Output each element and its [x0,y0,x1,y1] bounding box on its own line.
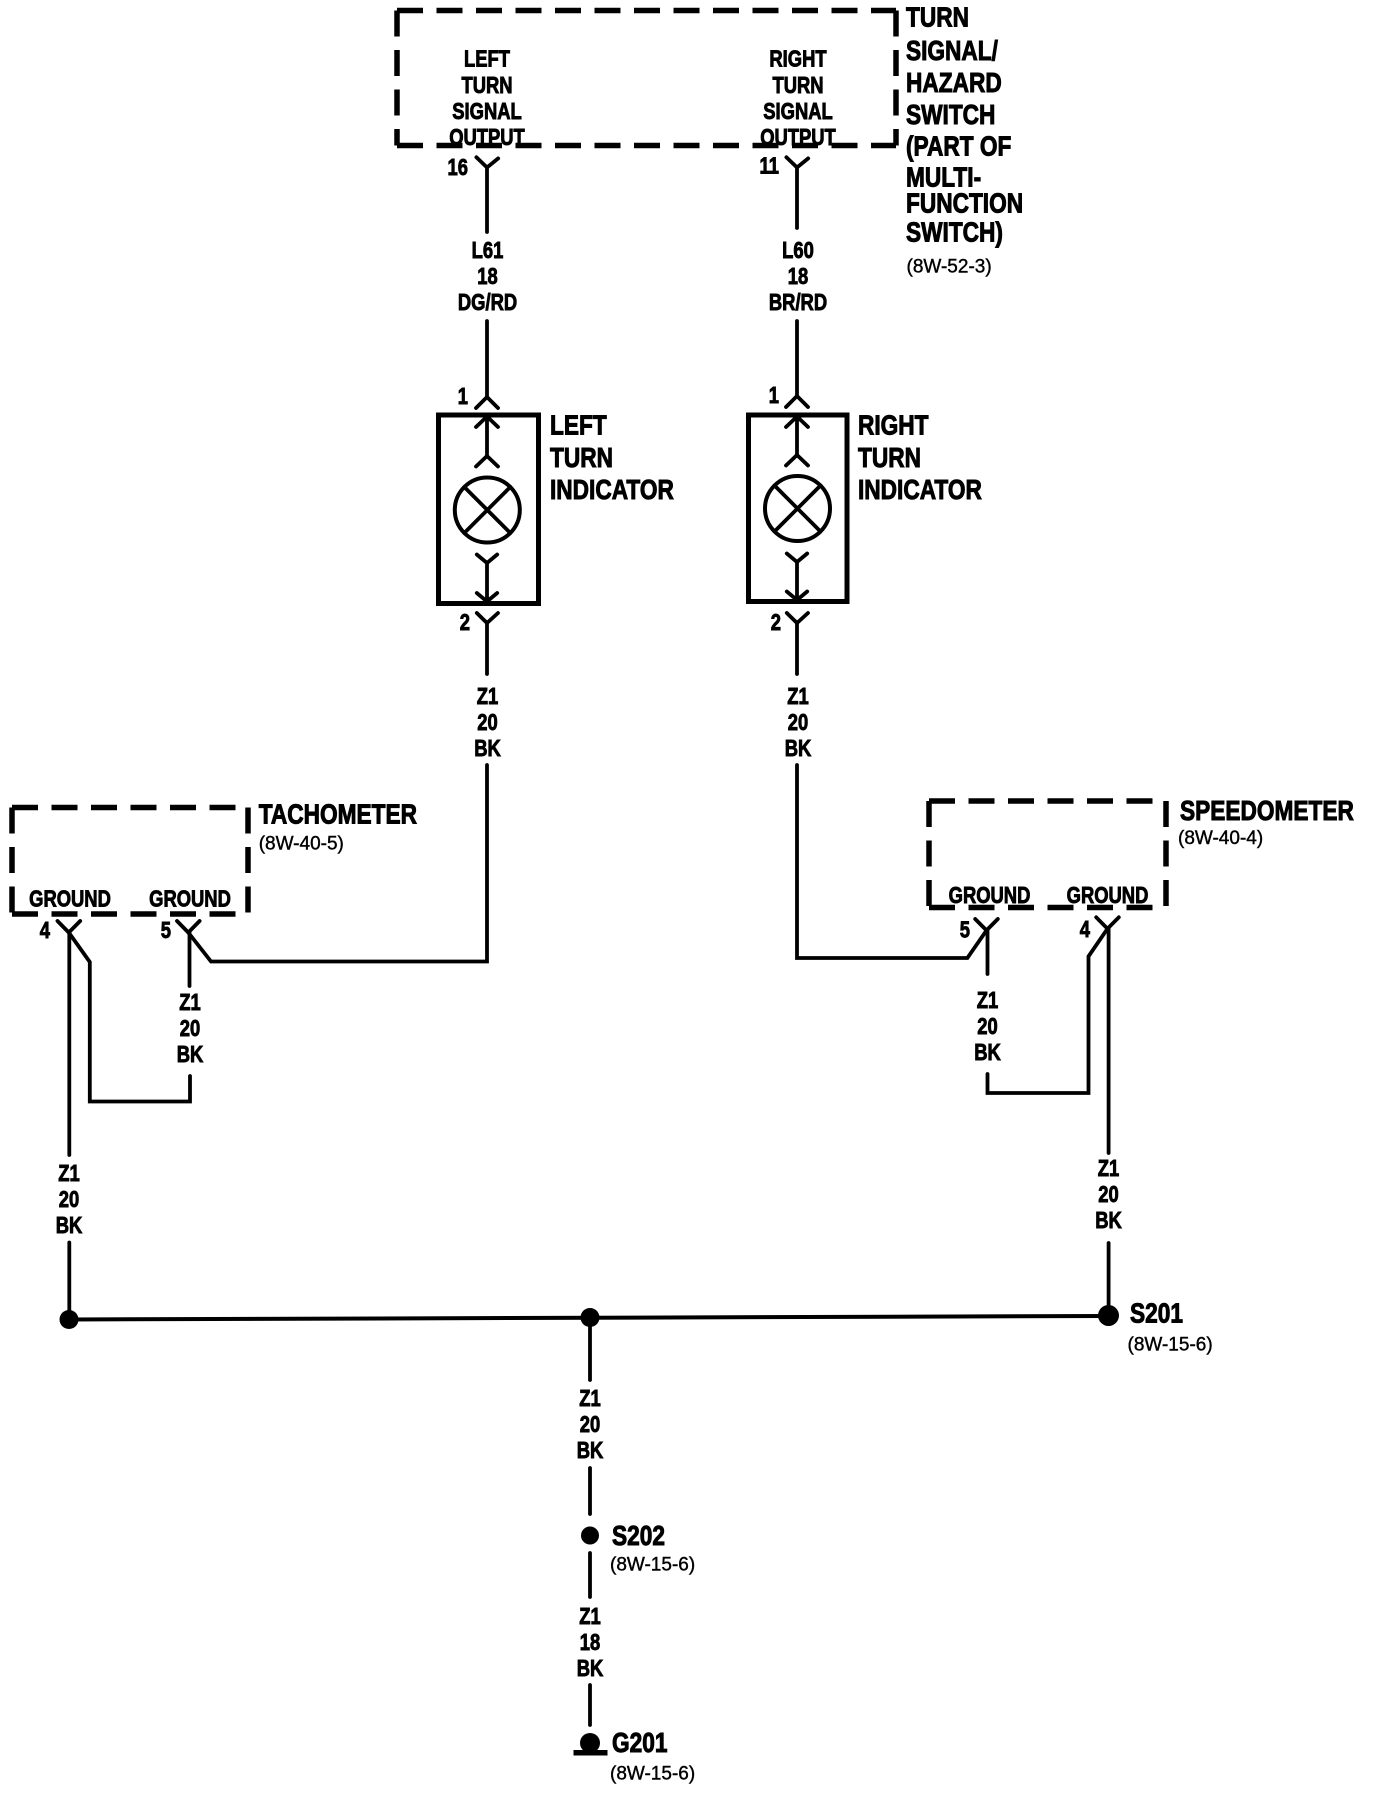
svg-text:BK: BK [577,1656,604,1681]
svg-text:L60: L60 [782,238,814,263]
svg-text:L61: L61 [472,238,504,263]
wire right indicator ground run [797,765,987,958]
wire speedo pin5 to pin4 jumper [988,929,1108,1093]
svg-text:BK: BK [974,1040,1001,1065]
svg-text:INDICATOR: INDICATOR [858,475,982,506]
svg-text:TURN: TURN [772,73,823,98]
wire label Z1 20 BK tach jumper [177,990,204,1067]
svg-text:SWITCH: SWITCH [906,100,995,131]
wire left indicator ground run [188,765,487,962]
wire label Z1 20 BK right [785,684,812,761]
svg-text:TURN: TURN [461,73,512,98]
wire label Z1 18 BK [577,1604,604,1681]
svg-text:BK: BK [177,1042,204,1067]
svg-text:1: 1 [769,383,779,408]
svg-text:SIGNAL/: SIGNAL/ [906,36,998,67]
svg-text:OUTPUT: OUTPUT [449,125,525,150]
svg-text:Z1: Z1 [787,684,808,709]
svg-text:20: 20 [180,1016,200,1041]
svg-text:TACHOMETER: TACHOMETER [259,799,417,830]
connector terminal speedo pin 4 (chevron) [1096,917,1119,928]
wire speedo pin4 to splice S201 [1107,1243,1111,1316]
svg-text:5: 5 [161,918,171,943]
svg-text:2: 2 [460,610,470,635]
svg-text:(8W-40-4): (8W-40-4) [1178,828,1263,849]
svg-text:(8W-15-6): (8W-15-6) [610,1555,695,1576]
wire tach pin 4 down [67,933,71,1156]
right indicator output arrow [787,554,807,601]
tachometer connector box (dashed) [12,808,248,915]
svg-text:20: 20 [580,1412,600,1437]
connector terminal speedo pin 5 (chevron) [975,919,998,930]
svg-text:18: 18 [477,264,497,289]
svg-text:20: 20 [1098,1182,1118,1207]
label RIGHT TURN INDICATOR [858,410,982,505]
wire L60 to right indicator [795,321,799,395]
svg-text:RIGHT: RIGHT [769,47,826,72]
wire middle junction to S202 [588,1318,592,1380]
svg-text:OUTPUT: OUTPUT [760,125,836,150]
svg-text:1: 1 [458,384,468,409]
connector terminal tach pin 5 (chevron) [177,921,200,933]
wire label Z1 20 BK speedo pin4 run [1095,1156,1122,1233]
svg-text:Z1: Z1 [977,988,998,1013]
ground bus wire to S201 [69,1316,1108,1320]
svg-text:11: 11 [760,154,779,179]
left turn indicator box [439,415,539,604]
svg-text:FUNCTION: FUNCTION [906,188,1023,219]
wire speedo pin 5 down [986,930,990,974]
svg-text:18: 18 [580,1630,600,1655]
svg-text:LEFT: LEFT [550,410,607,441]
svg-text:Z1: Z1 [579,1604,600,1629]
connector terminal pin 2 left (Y) [477,613,498,674]
connector terminal pin 2 right (Y) [787,613,808,674]
right indicator input arrow [786,417,808,466]
wire label Z1 20 BK middle [577,1386,604,1463]
junction middle [581,1308,600,1327]
svg-text:GROUND: GROUND [29,887,111,912]
splice S201 [1098,1305,1119,1326]
svg-text:4: 4 [1080,917,1091,942]
wire tach pin4 to pin5 jumper [69,933,190,1102]
svg-text:Z1: Z1 [58,1161,79,1186]
wire speedo pin 4 down [1107,929,1111,1153]
svg-text:BK: BK [577,1438,604,1463]
wire S202 down [588,1553,592,1597]
svg-text:S202: S202 [612,1521,665,1552]
svg-text:SIGNAL: SIGNAL [452,99,522,124]
svg-text:GROUND: GROUND [949,883,1031,908]
svg-text:Z1: Z1 [1098,1156,1119,1181]
wire label Z1 20 BK tach pin4 run [56,1161,83,1238]
wire to S202 [588,1468,592,1514]
wire label Z1 20 BK left [474,684,501,761]
svg-text:20: 20 [477,710,497,735]
connector terminal pin 1 left (chevron) [476,397,498,408]
svg-text:Z1: Z1 [579,1386,600,1411]
splice S202 [581,1527,599,1545]
svg-text:20: 20 [59,1187,79,1212]
connector terminal tach pin 4 (chevron) [58,921,81,933]
speedometer connector box (dashed) [929,801,1166,908]
lamp left indicator [455,478,520,543]
svg-text:GROUND: GROUND [149,887,231,912]
svg-text:TURN: TURN [858,443,921,474]
svg-text:TURN: TURN [906,2,969,33]
svg-text:(PART OF: (PART OF [906,131,1011,162]
svg-text:(8W-52-3): (8W-52-3) [907,257,992,278]
svg-text:HAZARD: HAZARD [906,68,1002,99]
svg-text:20: 20 [788,710,808,735]
left indicator output arrow [477,555,497,602]
svg-text:20: 20 [977,1014,997,1039]
svg-text:BR/RD: BR/RD [769,290,827,315]
wire label L61 18 DG/RD [458,238,517,315]
svg-text:BK: BK [474,736,501,761]
svg-text:(8W-15-6): (8W-15-6) [610,1764,695,1785]
label LEFT TURN INDICATOR [550,410,674,505]
connector terminal pin 1 right (chevron) [786,396,808,407]
wire label Z1 20 BK speedo jumper [974,988,1001,1065]
right turn indicator box [749,415,848,602]
svg-text:BK: BK [785,736,812,761]
svg-text:(8W-15-6): (8W-15-6) [1128,1335,1213,1356]
svg-text:2: 2 [771,610,781,635]
label LEFT TURN SIGNAL OUTPUT [449,47,525,151]
left indicator input arrow [476,417,498,467]
svg-text:SIGNAL: SIGNAL [763,99,833,124]
svg-text:(8W-40-5): (8W-40-5) [259,834,344,855]
svg-text:TURN: TURN [550,443,613,474]
svg-text:LEFT: LEFT [464,47,510,72]
connector terminal pin 11 (Y) [786,157,808,228]
svg-text:GROUND: GROUND [1067,883,1149,908]
svg-text:5: 5 [960,918,970,943]
label TURN SIGNAL/HAZARD SWITCH (PART OF MULTI-FUNCTION SWITCH) [906,2,1023,277]
svg-text:18: 18 [788,264,808,289]
svg-text:RIGHT: RIGHT [858,410,929,441]
svg-text:Z1: Z1 [477,684,498,709]
connector terminal pin 16 (Y) [476,157,498,232]
svg-text:16: 16 [448,155,468,180]
svg-text:BK: BK [56,1213,83,1238]
svg-text:S201: S201 [1130,1298,1183,1329]
lamp right indicator [765,476,830,541]
svg-text:G201: G201 [612,1728,667,1759]
svg-text:Z1: Z1 [179,990,200,1015]
ground G201 symbol [574,1733,608,1756]
svg-text:BK: BK [1095,1208,1122,1233]
svg-text:INDICATOR: INDICATOR [550,475,674,506]
turn signal/hazard switch connector box (dashed) [397,11,896,146]
wire label L60 18 BR/RD [769,238,827,315]
wire tach pin4 to splice bus [67,1243,71,1319]
label RIGHT TURN SIGNAL OUTPUT [760,47,836,151]
wire to ground G201 [588,1685,592,1725]
wire L61 to left indicator [485,321,489,396]
svg-text:DG/RD: DG/RD [458,290,517,315]
svg-text:SPEEDOMETER: SPEEDOMETER [1180,796,1354,827]
junction left [60,1310,79,1329]
svg-text:SWITCH): SWITCH) [906,217,1003,248]
svg-text:4: 4 [40,918,51,943]
